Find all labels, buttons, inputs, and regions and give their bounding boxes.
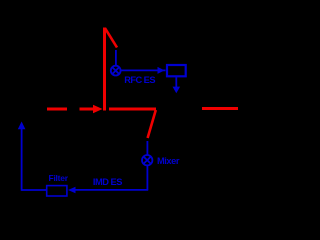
svg-text:Filter: Filter [49, 173, 69, 183]
svg-text:Mixer: Mixer [157, 156, 180, 166]
svg-text:IMD ES: IMD ES [93, 177, 122, 187]
svg-text:RFC ES: RFC ES [124, 75, 155, 85]
